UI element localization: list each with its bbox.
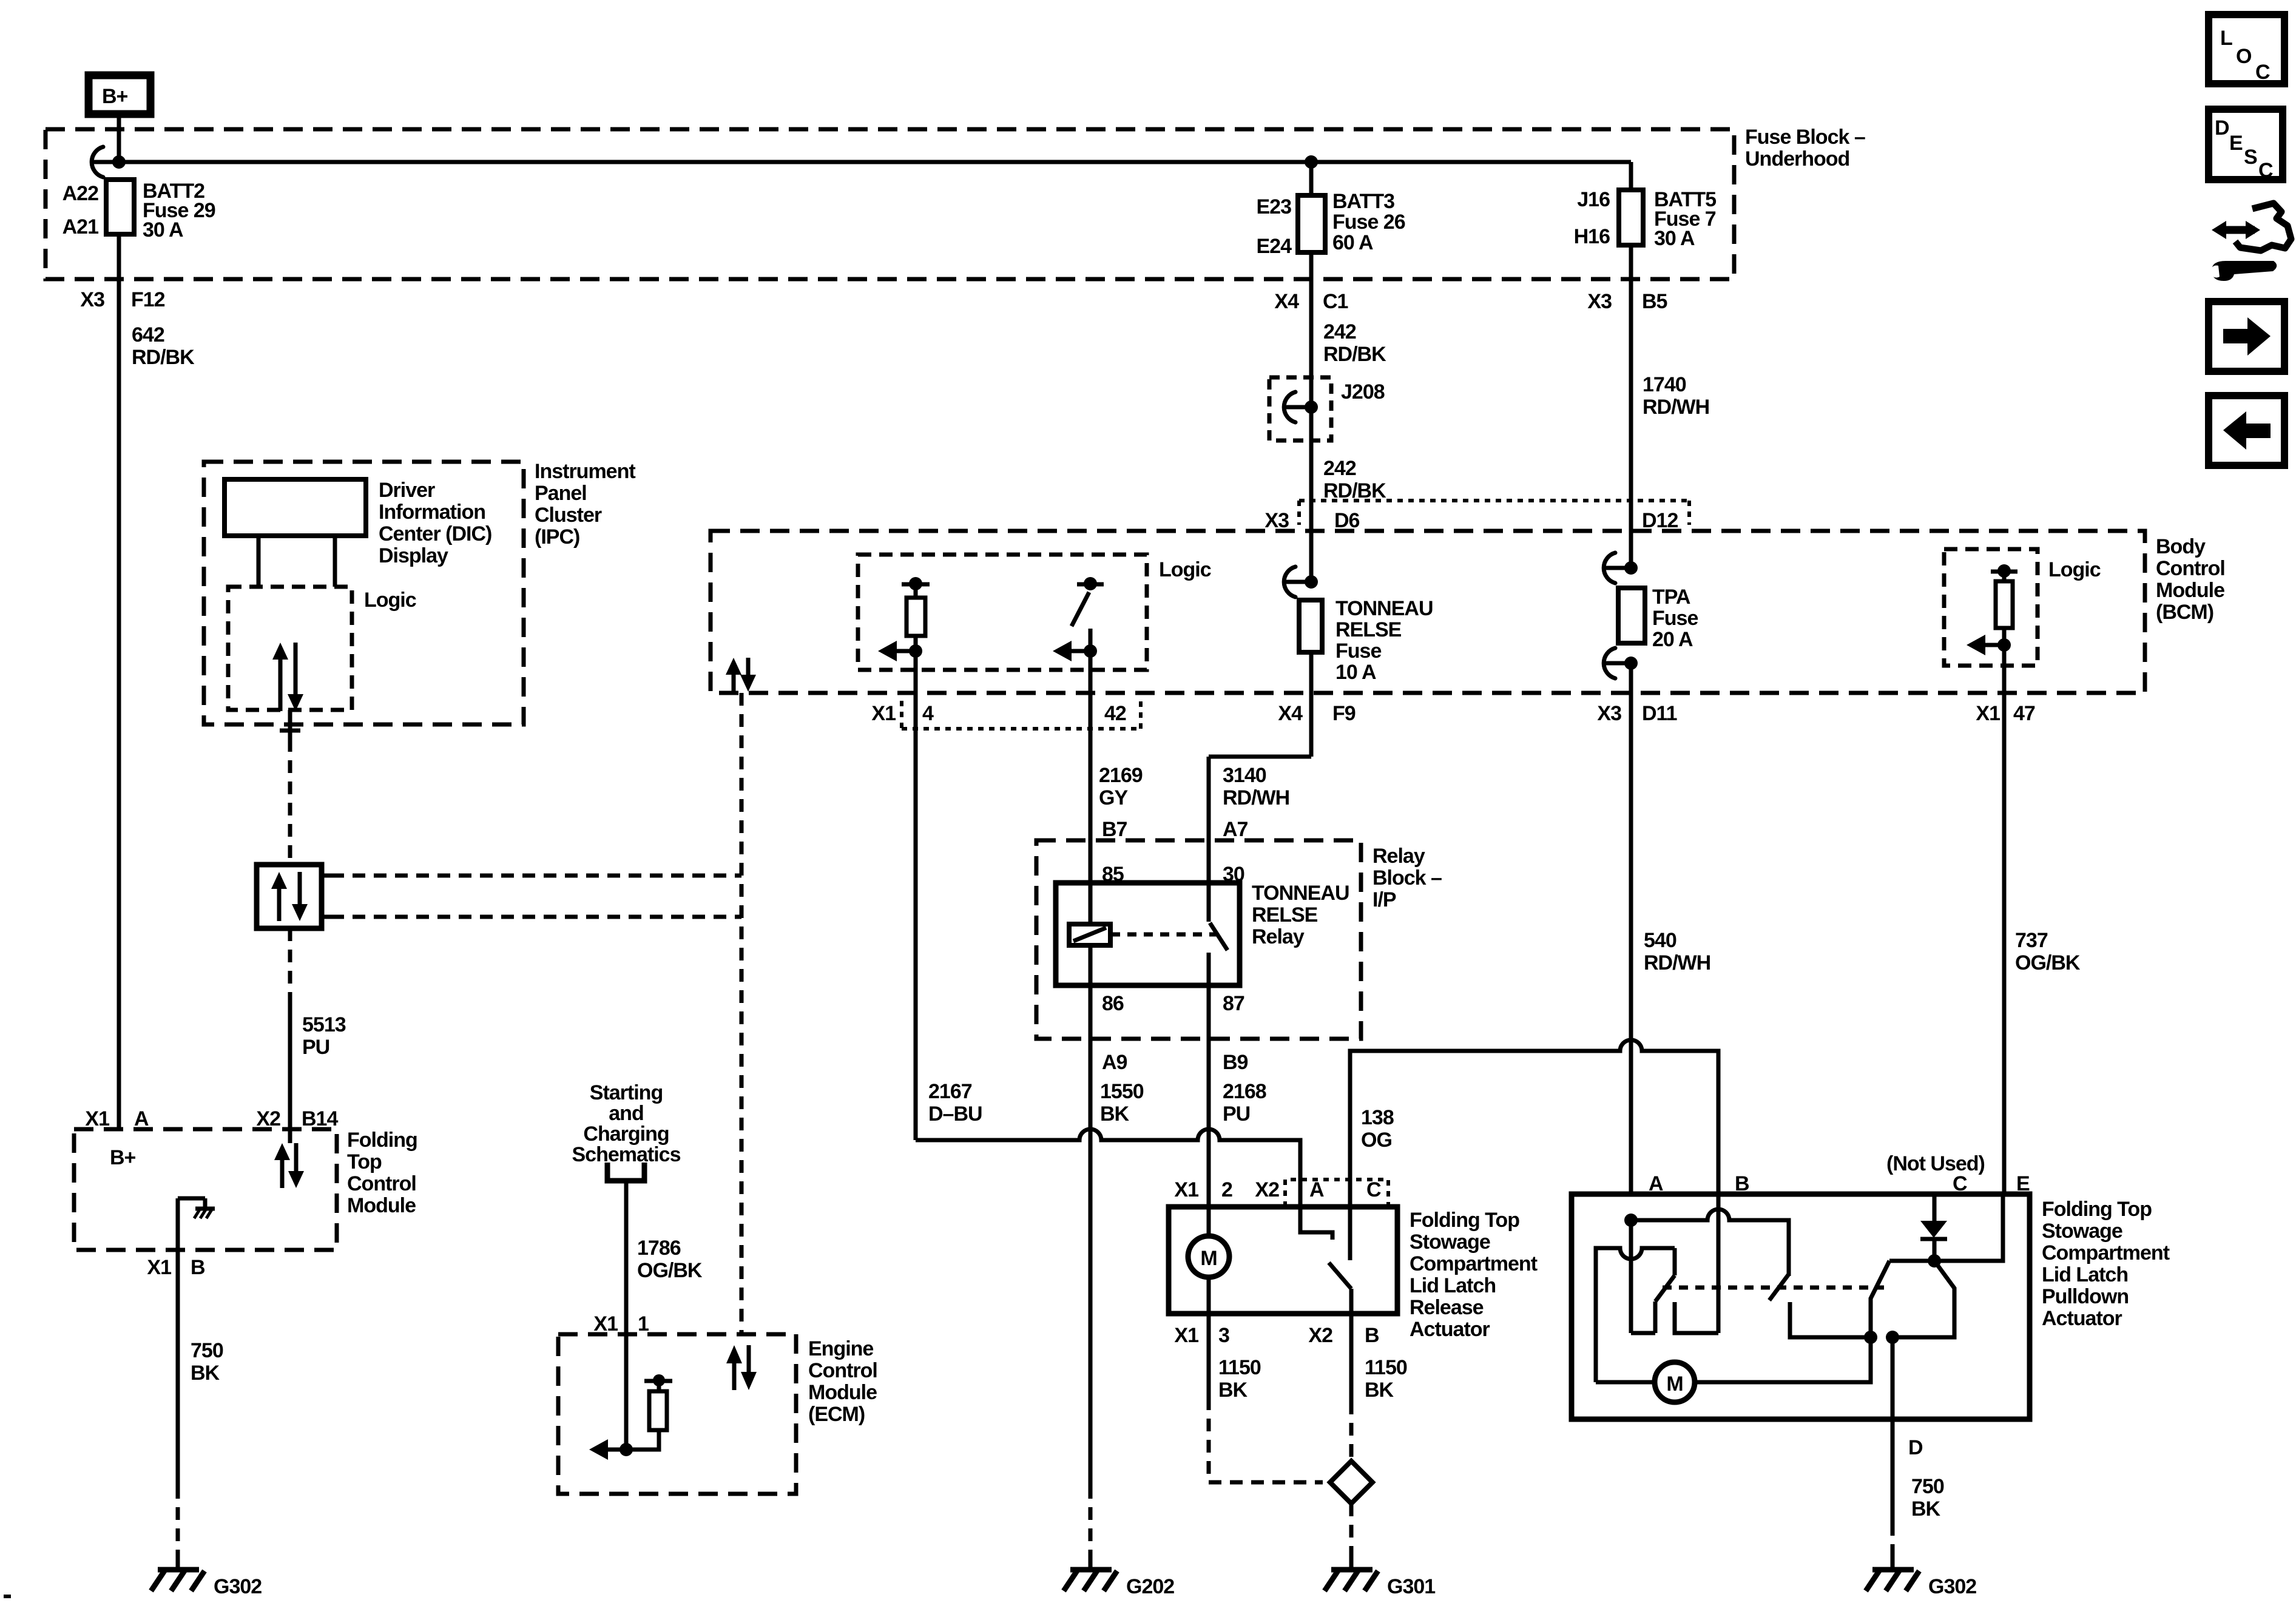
ground G202 — [1064, 1570, 1174, 1598]
svg-text:BK: BK — [1365, 1379, 1394, 1402]
svg-text:2168: 2168 — [1223, 1080, 1266, 1103]
left switch arm — [1655, 1275, 1675, 1301]
left switch: feed with hop over A — [1596, 1248, 1675, 1382]
ground G302 left — [151, 1570, 262, 1598]
svg-text:TPA: TPA — [1652, 586, 1690, 609]
right switch (pulldown) — [1871, 1261, 1954, 1344]
svg-text:Release: Release — [1410, 1296, 1484, 1319]
svg-text:G302: G302 — [1928, 1575, 1976, 1598]
wire B+ to bus — [117, 114, 121, 162]
connector dotted box X2 A C — [1285, 1180, 1388, 1207]
switch in BCM logic — [1053, 577, 1104, 883]
svg-text:Body: Body — [2156, 535, 2206, 558]
DESC icon box — [2209, 109, 2283, 182]
svg-text:(ECM): (ECM) — [808, 1403, 865, 1426]
resistor in BCM logic — [878, 577, 930, 1140]
TONNEAU RELSE fuse inside BCM — [1209, 567, 1433, 883]
svg-text:E23: E23 — [1257, 195, 1292, 218]
svg-text:Top: Top — [347, 1150, 382, 1173]
svg-text:D: D — [2215, 116, 2229, 140]
splice diamond — [1330, 1461, 1373, 1504]
wire A to middle switch with hop over B — [1631, 1209, 1789, 1276]
svg-text:1150: 1150 — [1218, 1356, 1261, 1379]
relay coil — [1069, 883, 1110, 985]
svg-text:Panel: Panel — [535, 482, 587, 505]
svg-text:2169: 2169 — [1099, 764, 1143, 787]
resistor in BCM right logic — [1967, 564, 2017, 1194]
svg-text:Display: Display — [379, 544, 448, 567]
middle switch arm — [1769, 1274, 1789, 1300]
svg-text:Logic: Logic — [2048, 558, 2101, 581]
svg-text:J208: J208 — [1341, 380, 1385, 403]
svg-text:Actuator: Actuator — [2042, 1307, 2122, 1330]
serial data box — [257, 865, 331, 928]
svg-text:OG/BK: OG/BK — [637, 1259, 703, 1282]
svg-text:Center (DIC): Center (DIC) — [379, 522, 491, 545]
net 2167: horizontal with hops — [916, 1129, 1332, 1240]
svg-text:(IPC): (IPC) — [535, 525, 579, 549]
release actuator box — [1169, 1207, 1397, 1314]
svg-text:G301: G301 — [1387, 1575, 1435, 1598]
svg-text:4: 4 — [922, 702, 934, 725]
E wire into box — [1934, 1194, 2003, 1261]
svg-text:86: 86 — [1102, 992, 1124, 1015]
svg-text:GY: GY — [1099, 786, 1128, 809]
svg-text:D11: D11 — [1642, 702, 1677, 725]
fuse BATT3 — [1257, 162, 1405, 377]
connector dotted row X3 D6 D12 — [1299, 501, 1689, 525]
svg-text:138: 138 — [1361, 1106, 1394, 1129]
diode — [1920, 1194, 1947, 1261]
BCM right Logic box — [1944, 549, 2101, 666]
fuse BATT2 — [62, 180, 215, 241]
svg-text:C: C — [1366, 1178, 1381, 1201]
page mark bottom-left — [4, 1595, 11, 1598]
dashed wire to G301 — [1349, 1504, 1354, 1559]
B+ terminal — [89, 75, 150, 114]
svg-text:D: D — [1908, 1436, 1923, 1459]
svg-text:(Not Used): (Not Used) — [1886, 1152, 1985, 1175]
svg-text:750: 750 — [1911, 1475, 1944, 1498]
svg-text:42: 42 — [1104, 702, 1126, 725]
svg-text:PU: PU — [1223, 1102, 1250, 1126]
service (car + wrench) icon — [2210, 203, 2291, 281]
svg-text:X1: X1 — [147, 1256, 171, 1279]
svg-text:OG: OG — [1361, 1129, 1392, 1152]
svg-text:Folding Top: Folding Top — [2042, 1198, 2152, 1221]
IPC logic serial arrows — [272, 643, 303, 711]
svg-text:D–BU: D–BU — [928, 1102, 982, 1126]
svg-text:B9: B9 — [1223, 1051, 1248, 1074]
svg-text:TONNEAU: TONNEAU — [1335, 597, 1433, 620]
TPA fuse inside BCM — [1604, 553, 1698, 1194]
svg-text:BK: BK — [191, 1362, 220, 1385]
svg-text:A: A — [1309, 1178, 1324, 1201]
svg-text:BK: BK — [1218, 1379, 1248, 1402]
svg-text:540: 540 — [1644, 929, 1676, 952]
svg-text:1786: 1786 — [637, 1237, 681, 1260]
svg-text:Module: Module — [2156, 579, 2224, 602]
svg-text:A9: A9 — [1102, 1051, 1127, 1074]
svg-text:Starting: Starting — [590, 1081, 663, 1104]
fuse block underhood dashed box — [46, 129, 1734, 279]
svg-text:Actuator: Actuator — [1410, 1318, 1490, 1341]
svg-text:G302: G302 — [214, 1575, 262, 1598]
svg-text:Fuse: Fuse — [1652, 607, 1698, 630]
svg-text:X1: X1 — [871, 702, 896, 725]
svg-text:L: L — [2220, 27, 2232, 50]
svg-text:Lid Latch: Lid Latch — [1410, 1274, 1496, 1297]
svg-text:Module: Module — [347, 1194, 416, 1217]
pulldown actuator box — [1572, 1194, 2030, 1419]
off-page connector bracket — [607, 1163, 644, 1181]
svg-text:3140: 3140 — [1223, 764, 1266, 787]
svg-text:O: O — [2236, 45, 2252, 68]
ground G302 right — [1866, 1570, 1976, 1598]
svg-text:TONNEAU: TONNEAU — [1252, 882, 1349, 905]
svg-text:Pulldown: Pulldown — [2042, 1285, 2129, 1308]
svg-text:Relay: Relay — [1373, 845, 1425, 868]
splice J208 — [1269, 377, 1385, 582]
svg-text:Driver: Driver — [379, 479, 435, 502]
svg-text:B: B — [1365, 1324, 1379, 1347]
dashed serial lines to BCM/ECM — [331, 874, 741, 878]
svg-text:C: C — [2258, 159, 2273, 182]
svg-text:Stowage: Stowage — [1410, 1230, 1490, 1254]
IPC logic dashed box — [228, 587, 352, 710]
svg-text:(BCM): (BCM) — [2156, 601, 2213, 624]
svg-text:I/P: I/P — [1373, 888, 1396, 911]
svg-text:BK: BK — [1100, 1102, 1130, 1126]
DIC legs — [258, 536, 335, 587]
svg-text:PU: PU — [302, 1036, 329, 1059]
svg-text:RD/WH: RD/WH — [1644, 951, 1710, 974]
middle contact stub — [1790, 1302, 1871, 1337]
svg-text:D12: D12 — [1642, 509, 1678, 532]
clip at bus left junction — [92, 147, 119, 177]
svg-text:642: 642 — [132, 323, 164, 346]
fuse BATT5 — [1574, 162, 1716, 568]
svg-text:Control: Control — [347, 1172, 416, 1195]
svg-text:D6: D6 — [1334, 509, 1360, 532]
svg-text:OG/BK: OG/BK — [2015, 951, 2081, 974]
svg-text:5513: 5513 — [302, 1013, 346, 1036]
svg-text:Stowage: Stowage — [2042, 1220, 2122, 1243]
svg-text:2: 2 — [1221, 1178, 1232, 1201]
svg-text:X2: X2 — [1308, 1324, 1332, 1347]
svg-text:F9: F9 — [1332, 702, 1356, 725]
svg-text:X3: X3 — [1264, 509, 1289, 532]
LOC icon box — [2209, 15, 2284, 84]
ECM serial arrows — [726, 1345, 757, 1390]
svg-text:Cluster: Cluster — [535, 504, 602, 527]
svg-text:B: B — [191, 1256, 205, 1279]
svg-text:20 A: 20 A — [1652, 628, 1693, 651]
left contact stub pair 2 and B wire — [1675, 1194, 1718, 1333]
svg-text:B14: B14 — [302, 1107, 338, 1130]
wire 1786 OG/BK — [624, 1181, 629, 1334]
svg-text:B+: B+ — [102, 85, 128, 108]
wire D to G302 — [1891, 1337, 1895, 1523]
svg-text:A21: A21 — [62, 215, 98, 238]
svg-text:X2: X2 — [1255, 1178, 1279, 1201]
junction dot bus BATT3 — [1305, 155, 1318, 169]
gang dashed link — [1663, 1286, 1884, 1290]
svg-text:Lid Latch: Lid Latch — [2042, 1263, 2128, 1286]
svg-text:242: 242 — [1323, 320, 1356, 343]
svg-text:30 A: 30 A — [143, 218, 183, 241]
TONNEAU RELSE relay box — [1056, 883, 1240, 985]
svg-text:47: 47 — [2013, 702, 2035, 725]
svg-text:750: 750 — [191, 1339, 223, 1362]
svg-text:S: S — [2244, 146, 2257, 169]
left contact stub pair 1 — [1631, 1301, 1655, 1333]
svg-text:Compartment: Compartment — [2042, 1241, 2170, 1264]
BCM left Logic box — [858, 555, 1211, 670]
connector X1 4 42 dotted box — [902, 701, 1141, 729]
ground G301 — [1325, 1570, 1435, 1598]
svg-text:RELSE: RELSE — [1252, 903, 1318, 927]
svg-text:Control: Control — [808, 1359, 877, 1382]
svg-text:X2: X2 — [256, 1107, 280, 1130]
svg-text:Engine: Engine — [808, 1337, 873, 1360]
bus wire — [119, 160, 1631, 164]
svg-text:B5: B5 — [1642, 290, 1667, 313]
right-arrow icon box — [2209, 302, 2284, 371]
svg-text:1150: 1150 — [1365, 1356, 1407, 1379]
svg-text:Instrument: Instrument — [535, 460, 635, 483]
BCM serial data arrows — [726, 658, 756, 692]
svg-text:1740: 1740 — [1643, 373, 1686, 396]
wire 750 BK to G302 — [176, 1250, 180, 1486]
svg-text:Control: Control — [2156, 557, 2225, 580]
svg-text:X1: X1 — [1976, 702, 2000, 725]
svg-text:10 A: 10 A — [1335, 661, 1376, 684]
wire 87 to B9 down to motor — [1207, 985, 1211, 1236]
pin A junction — [1624, 1214, 1638, 1227]
svg-text:Fuse 26: Fuse 26 — [1332, 211, 1405, 234]
svg-text:J16: J16 — [1577, 188, 1610, 211]
svg-text:RELSE: RELSE — [1335, 618, 1402, 641]
svg-text:242: 242 — [1323, 457, 1356, 480]
wire 86 to A9 down to G202 — [1089, 985, 1093, 1486]
svg-text:X4: X4 — [1274, 290, 1299, 313]
svg-text:RD/WH: RD/WH — [1643, 396, 1709, 419]
svg-text:RD/BK: RD/BK — [1323, 343, 1386, 366]
relay switch — [1209, 883, 1227, 985]
ECM internal wire and resistor — [589, 1334, 672, 1460]
svg-text:E: E — [2229, 132, 2243, 155]
svg-text:G202: G202 — [1126, 1575, 1174, 1598]
svg-text:Charging: Charging — [583, 1122, 669, 1146]
FTCM serial arrows — [274, 1143, 304, 1188]
svg-text:X3: X3 — [1587, 290, 1612, 313]
net 138 OG: C wire up and across to pulldown B — [1350, 1040, 1718, 1260]
svg-text:RD/WH: RD/WH — [1223, 786, 1289, 809]
svg-text:C: C — [2255, 61, 2270, 84]
DIC display box — [225, 479, 366, 536]
svg-text:Underhood: Underhood — [1745, 147, 1849, 170]
BCM dashed box — [711, 531, 2145, 693]
svg-text:F12: F12 — [131, 288, 165, 311]
svg-text:X3: X3 — [80, 288, 104, 311]
svg-text:60 A: 60 A — [1332, 231, 1373, 254]
svg-text:Logic: Logic — [1159, 558, 1211, 581]
svg-text:H16: H16 — [1574, 225, 1610, 248]
svg-text:Module: Module — [808, 1381, 877, 1404]
svg-text:BATT3: BATT3 — [1332, 190, 1394, 213]
svg-text:X4: X4 — [1278, 702, 1303, 725]
svg-text:A: A — [134, 1107, 149, 1130]
relay link dashed — [1111, 933, 1222, 937]
release actuator switch — [1329, 1263, 1351, 1402]
svg-text:RD/BK: RD/BK — [132, 346, 195, 369]
pulldown motor M — [1596, 1337, 1871, 1402]
wire 5513 PU — [288, 928, 292, 995]
FTCM internal ground — [178, 1198, 215, 1250]
svg-text:Fuse Block –: Fuse Block – — [1745, 126, 1865, 149]
svg-text:C1: C1 — [1323, 290, 1348, 313]
svg-text:and: and — [609, 1102, 643, 1125]
svg-text:BK: BK — [1911, 1497, 1941, 1521]
svg-text:Fuse: Fuse — [1335, 640, 1381, 663]
left-arrow icon box — [2209, 396, 2284, 465]
svg-text:2167: 2167 — [928, 1080, 972, 1103]
svg-text:B7: B7 — [1102, 818, 1127, 841]
svg-text:30 A: 30 A — [1654, 227, 1695, 250]
svg-text:Compartment: Compartment — [1410, 1252, 1538, 1275]
svg-text:737: 737 — [2015, 929, 2048, 952]
svg-text:Block –: Block – — [1373, 866, 1442, 890]
IPC dashed box — [204, 462, 524, 724]
svg-text:Relay: Relay — [1252, 925, 1305, 948]
svg-text:Schematics: Schematics — [572, 1143, 681, 1166]
svg-text:M: M — [1666, 1372, 1683, 1396]
svg-text:M: M — [1200, 1247, 1217, 1270]
svg-text:87: 87 — [1223, 992, 1244, 1015]
release actuator motor M — [1188, 1236, 1229, 1397]
svg-text:Folding Top: Folding Top — [1410, 1209, 1519, 1232]
svg-text:X1: X1 — [1174, 1324, 1198, 1347]
svg-text:Logic: Logic — [364, 589, 416, 612]
svg-text:B+: B+ — [110, 1146, 136, 1169]
wire 642 RD/BK down from fuse — [117, 234, 121, 1129]
svg-text:1550: 1550 — [1100, 1080, 1144, 1103]
wire from IPC logic down — [288, 710, 292, 739]
svg-text:X1: X1 — [593, 1312, 618, 1335]
svg-text:X1: X1 — [1174, 1178, 1198, 1201]
svg-text:E24: E24 — [1257, 235, 1292, 258]
svg-text:X3: X3 — [1597, 702, 1621, 725]
svg-text:Information: Information — [379, 501, 485, 524]
svg-text:1: 1 — [638, 1312, 649, 1335]
svg-text:Folding: Folding — [347, 1129, 417, 1152]
svg-text:X1: X1 — [85, 1107, 109, 1130]
junction dot bus left — [112, 155, 126, 169]
dashed wires to splice diamond — [1209, 1397, 1323, 1482]
svg-text:3: 3 — [1218, 1324, 1229, 1347]
svg-text:A22: A22 — [62, 182, 98, 205]
svg-text:A7: A7 — [1223, 818, 1248, 841]
